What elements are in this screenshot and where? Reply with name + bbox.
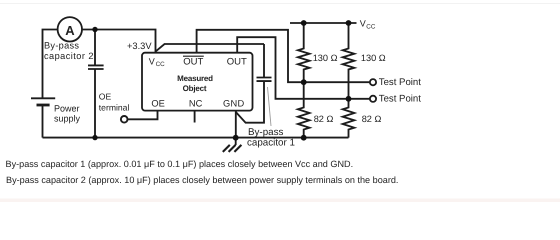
bypass capacitor C2 bottom lead: [94, 69, 96, 138]
svg-text:By-pass: By-pass: [44, 41, 79, 51]
svg-text:Object: Object: [183, 84, 207, 93]
svg-text:OE: OE: [99, 91, 112, 101]
junction dot test line 2 col2: [346, 96, 352, 102]
wire: ammeter to +3.3V corner, down to Vcc pin: [82, 30, 155, 53]
svg-text:V: V: [149, 56, 155, 66]
GND pin wire down to rail: [235, 111, 237, 138]
NC pin stub: [194, 111, 196, 123]
svg-text:NC: NC: [189, 99, 203, 109]
ammeter A1: [58, 17, 82, 41]
junction dot rail GND: [233, 135, 239, 141]
wire: OE terminal to OE pin: [128, 111, 158, 120]
svg-text:130 Ω: 130 Ω: [313, 53, 338, 63]
bypass capacitor C1 top lead: [263, 44, 265, 77]
svg-text:A: A: [65, 23, 75, 38]
wire: +3.3V net to bypass capacitor 1 (diagonal jog): [156, 44, 265, 52]
ground symbol stub: [235, 138, 237, 145]
IC U1 Measured Object box: [142, 53, 253, 111]
bypass capacitor C2 plates: [88, 65, 104, 69]
battery B1 long plate: [31, 97, 55, 99]
svg-text:supply: supply: [54, 114, 81, 124]
svg-text:V: V: [360, 19, 366, 29]
leader line for bypass capacitor 1 label: [268, 87, 272, 126]
bypass capacitor C1 plates: [257, 78, 272, 82]
svg-text:Test Point: Test Point: [379, 94, 421, 105]
junction dot top rail col1: [301, 20, 307, 26]
wire: OUT pin route to test line 2: [237, 37, 370, 99]
resistor R3 82ohm: [298, 82, 310, 138]
junction dot test line 1 col1: [301, 79, 307, 85]
battery B1 short plate: [37, 104, 50, 107]
resistor R1 130ohm: [298, 23, 310, 82]
junction dot rail x95: [92, 135, 97, 140]
svg-text:OUT: OUT: [227, 57, 247, 68]
battery B1 bottom lead: [42, 106, 44, 138]
junction dot top rail col2: [346, 20, 352, 26]
wire: OUT-bar pin route to test line 1: [197, 30, 370, 82]
svg-text:terminal: terminal: [99, 102, 130, 112]
svg-text:Power: Power: [54, 104, 80, 114]
wire: resistor network top rail: [290, 22, 357, 24]
svg-text:CC: CC: [156, 61, 166, 68]
ground symbol hatches: [223, 145, 242, 152]
test point circle TP1: [370, 79, 376, 85]
svg-text:capacitor 1: capacitor 1: [247, 137, 295, 148]
svg-text:82 Ω: 82 Ω: [362, 114, 382, 124]
svg-text:OE: OE: [151, 99, 164, 109]
svg-text:CC: CC: [366, 23, 376, 30]
bypass capacitor C2 top lead: [94, 30, 96, 65]
wire: bottom rail: [43, 137, 349, 139]
svg-text:+3.3V: +3.3V: [127, 41, 152, 51]
svg-text:82 Ω: 82 Ω: [314, 114, 334, 124]
wire: left rail (battery top lead up and across to ammeter): [43, 30, 58, 98]
junction dot rail col1: [301, 135, 307, 141]
resistor R2 130ohm: [343, 23, 355, 99]
svg-text:capacitor 2: capacitor 2: [44, 51, 94, 61]
svg-text:By-pass capacitor 1 (approx. 0: By-pass capacitor 1 (approx. 0.01 μF to …: [6, 159, 354, 169]
test point circle TP2: [370, 96, 376, 102]
junction dot at ammeter output: [92, 27, 97, 32]
svg-text:GND: GND: [223, 99, 245, 109]
resistor R4 82ohm: [343, 99, 355, 138]
svg-text:By-pass capacitor 2 (approx. 1: By-pass capacitor 2 (approx. 10 μF) plac…: [6, 175, 398, 185]
svg-text:Test Point: Test Point: [379, 77, 421, 88]
bypass capacitor C1 bottom lead to GND pin: [236, 81, 264, 122]
svg-text:130 Ω: 130 Ω: [361, 53, 386, 63]
svg-text:OUT: OUT: [183, 57, 203, 68]
OE terminal circle: [121, 116, 128, 123]
svg-text:Measured: Measured: [177, 74, 213, 83]
